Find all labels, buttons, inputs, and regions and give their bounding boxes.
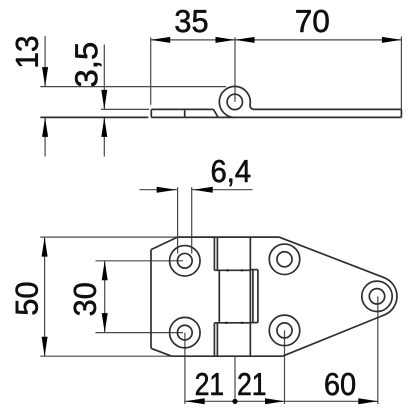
right leaf top edge bbox=[254, 108, 402, 110]
ext line hole right side (6,4) bbox=[191, 187, 193, 253]
ext line top of knuckle bbox=[40, 86, 226, 88]
dim line 35/70 bbox=[151, 39, 402, 41]
junction dot 21/21 bbox=[232, 399, 237, 404]
knuckle middle curl top cap bbox=[250, 269, 258, 271]
ext line from left bottom hole bbox=[184, 333, 186, 404]
plan top edge bbox=[178, 236, 280, 238]
knuckle bottom finger left edge outer bbox=[213, 323, 215, 356]
dim text 21 right bbox=[238, 373, 265, 395]
dim 6,4 left line bbox=[140, 189, 178, 191]
arrow 70 right bbox=[382, 37, 402, 43]
dim text 30 (rotated) bbox=[74, 283, 96, 315]
dim 13 lower line bbox=[44, 117, 46, 156]
knuckle bottom finger left edge inner bbox=[216, 323, 218, 356]
knuckle middle finger left edge bbox=[218, 270, 220, 323]
knuckle middle curl edge inner bbox=[252, 270, 254, 323]
left leaf curl diagonal bbox=[214, 109, 219, 117]
dim text 21 left bbox=[196, 373, 223, 395]
arrow 3,5 up bbox=[101, 117, 107, 136]
knuckle bottom edge tick B bbox=[241, 322, 244, 324]
hole top-right bore bbox=[277, 252, 292, 267]
knuckle top edge tick A bbox=[226, 269, 229, 271]
dim text 35 bbox=[176, 10, 208, 32]
ext line from right bottom hole bbox=[284, 330, 286, 404]
ext line plan bottom (50) bbox=[40, 355, 171, 357]
arrow 30 down bbox=[102, 313, 108, 333]
dim 13 upper line bbox=[44, 36, 46, 87]
knuckle top finger left edge inner bbox=[216, 237, 218, 270]
knuckle outer rolled profile bbox=[219, 86, 254, 117]
dim 3,5 upper line bbox=[103, 45, 105, 110]
arrow 30 up bbox=[102, 261, 108, 281]
arrow 6,4 right pointing left bbox=[193, 187, 213, 193]
arrow 6,4 left pointing right bbox=[157, 187, 177, 193]
hole far-right bore bbox=[369, 289, 384, 304]
dim text 50 (rotated) bbox=[15, 283, 37, 315]
arrow 50 up bbox=[42, 237, 48, 257]
right leaf right end edge bbox=[400, 109, 402, 117]
knuckle middle curl edge outer bbox=[257, 270, 259, 323]
left leaf left end edge bbox=[150, 109, 152, 117]
arrow 50 down bbox=[42, 337, 48, 357]
knuckle top finger bottom edge bbox=[214, 269, 250, 271]
dim 3,5 lower line bbox=[103, 117, 105, 156]
hole bottom-right counterbore bbox=[269, 315, 300, 346]
arrow 35 left bbox=[151, 37, 171, 43]
dim 50 line bbox=[44, 237, 46, 356]
hole top-left bore bbox=[177, 253, 192, 268]
bottom dim line 21/21/60 bbox=[184, 400, 378, 402]
hole far-right counterbore bbox=[362, 281, 392, 311]
left plate left edge bbox=[150, 250, 152, 349]
hole bottom-left counterbore bbox=[170, 317, 201, 348]
ext line hole bottom center (30) bbox=[96, 332, 184, 334]
hinge pin circle bbox=[227, 94, 242, 109]
dim text 3,5 (rotated) bbox=[75, 43, 101, 86]
dim text 70 bbox=[296, 10, 328, 32]
arrow 35 right bbox=[216, 37, 236, 43]
arrow 3,5 down bbox=[101, 90, 107, 110]
dim text 60 bbox=[325, 373, 355, 395]
hole bottom-left bore bbox=[177, 325, 192, 340]
ext line plan top (50) bbox=[40, 236, 177, 238]
ext line top of leaf (3,5) bbox=[101, 108, 149, 110]
left leaf joint tick bbox=[184, 109, 186, 117]
ext line hole top center (30) bbox=[96, 260, 183, 262]
hole top-right counterbore bbox=[269, 244, 300, 275]
dim 6,4 right line bbox=[192, 189, 253, 191]
knuckle top finger left edge outer bbox=[213, 237, 215, 270]
knuckle bottom finger top edge bbox=[214, 322, 250, 324]
left plate bottom chamfer bbox=[151, 348, 172, 356]
arrow 60 right bbox=[358, 398, 378, 404]
arrow 21 left bbox=[185, 398, 205, 404]
ext line right end (70) bbox=[400, 37, 402, 110]
ext line hole left side (6,4) bbox=[177, 187, 179, 253]
dim text 6,4 bbox=[212, 160, 250, 186]
arrow 13 down bbox=[42, 67, 48, 87]
ext line knuckle center bbox=[234, 37, 236, 102]
plan bottom edge bbox=[172, 355, 283, 357]
right plate tapered outline bbox=[279, 237, 397, 356]
knuckle bottom edge tick A bbox=[225, 322, 228, 324]
ext line from far right hole bbox=[377, 296, 379, 404]
ext line from knuckle center bottom bbox=[234, 356, 236, 404]
arrow 13 up bbox=[42, 117, 48, 136]
hole bottom-right bore bbox=[277, 323, 292, 338]
left leaf top edge bbox=[151, 108, 213, 110]
dim 30 line bbox=[104, 261, 106, 333]
knuckle middle curl bottom cap bbox=[250, 322, 258, 324]
ext line left end (35) bbox=[150, 37, 152, 105]
dim text 13 (rotated) bbox=[16, 37, 38, 67]
arrow 70 left bbox=[235, 37, 255, 43]
side view bottom line (ext part) bbox=[40, 116, 148, 118]
arrow 21 right bbox=[265, 398, 285, 404]
side view bottom line bbox=[151, 116, 401, 118]
left plate top chamfer bbox=[151, 237, 178, 250]
hole top-left counterbore bbox=[170, 246, 201, 277]
knuckle top edge tick B bbox=[241, 269, 244, 271]
right plate bend line bbox=[249, 237, 251, 356]
